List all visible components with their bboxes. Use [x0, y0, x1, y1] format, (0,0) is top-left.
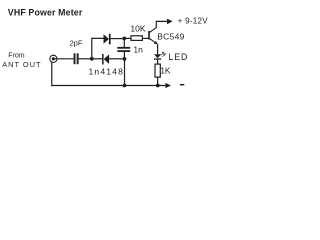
diode D2 1n4148 (top, points right) [104, 34, 111, 45]
wire riser node A up to top branch [92, 38, 104, 58]
wire R1 to base [142, 37, 148, 39]
svg-text:VHF Power Meter: VHF Power Meter [8, 7, 83, 17]
svg-text:ANT OUT: ANT OUT [2, 60, 41, 69]
rail junction dot at R2 [156, 84, 160, 88]
wire node A to D1 [92, 58, 102, 60]
wire C1 to node A [79, 58, 93, 60]
transistor Q1 BC549 [149, 28, 156, 44]
svg-text:1n4148: 1n4148 [89, 66, 125, 76]
rail junction dot at riser B [123, 84, 127, 88]
wire connector to C1 [53, 58, 74, 60]
wire riser node B down to rail [124, 59, 126, 86]
svg-text:From: From [8, 52, 25, 59]
emitter wire down to LED [157, 44, 159, 55]
supply arrowhead [167, 19, 173, 25]
svg-text:+ 9-12V: + 9-12V [178, 16, 209, 25]
wire D1 to node B [109, 58, 125, 60]
svg-text:LED: LED [168, 52, 188, 62]
capacitor C2 1n (vertical, between B' and B) [123, 38, 125, 47]
connector J1 (RCA from antenna) [50, 55, 57, 62]
node B' junction dot [122, 37, 126, 41]
rail arrowhead (negative return) [165, 83, 171, 88]
wire R2 to rail [157, 77, 159, 85]
LED emission arrows [161, 52, 166, 57]
wire D2 to node B' [111, 38, 125, 40]
svg-text:1n: 1n [133, 45, 143, 55]
ground riser from connector [51, 62, 53, 86]
wire LED to R2 [157, 60, 159, 64]
bottom rail wire [51, 85, 166, 87]
capacitor C1 2pF [74, 53, 79, 64]
resistor R1 10K (horizontal box) [131, 36, 142, 41]
LED D3 (points down) [154, 54, 161, 60]
svg-text:BC549: BC549 [157, 31, 185, 41]
svg-text:2pF: 2pF [70, 38, 83, 47]
svg-text:10K: 10K [130, 24, 145, 34]
collector wire up to supply [156, 21, 167, 28]
wire node B' to R1 [124, 37, 130, 39]
diode D1 1n4148 (bottom, points left) [102, 54, 109, 65]
node B junction dot [123, 57, 127, 61]
emitter arrowhead [154, 41, 158, 44]
svg-text:1K: 1K [160, 65, 171, 75]
node A junction dot [90, 57, 94, 61]
resistor R2 1K (vertical box) [155, 64, 160, 77]
label minus [180, 84, 184, 85]
